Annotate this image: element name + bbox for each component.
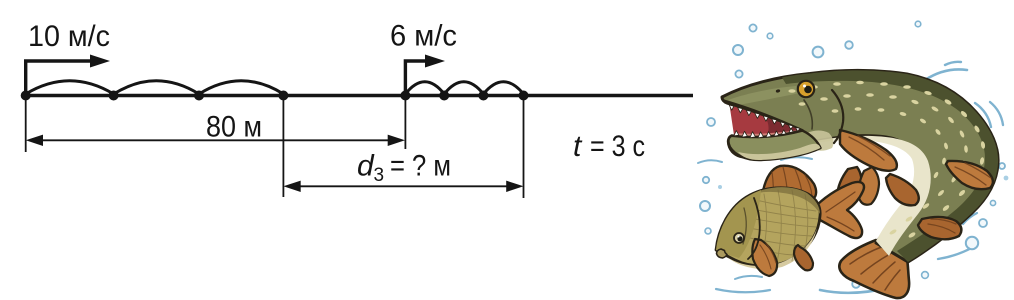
pike anal fin <box>918 217 961 239</box>
carp scale lines <box>749 190 818 262</box>
dimension line 80 m <box>26 135 405 146</box>
extension line left (x=25.7) <box>25 98 27 152</box>
bubble <box>813 47 824 58</box>
bubble <box>845 41 853 49</box>
pike pelvic fin right <box>886 174 919 205</box>
motion arc bottom center <box>820 287 892 293</box>
arc hop 3 (carp) <box>483 82 523 94</box>
ripple left of carp <box>698 160 722 163</box>
carp tail streaks <box>826 192 855 231</box>
bubble <box>966 237 978 249</box>
arc hop 3 (pike) <box>199 81 283 94</box>
ripple right of carp dorsal <box>781 157 812 160</box>
svg-text:t: t <box>573 130 583 163</box>
pike dorsal fin streaks <box>955 163 991 185</box>
motion arc top right 1 <box>925 69 967 80</box>
pike pelvic fin left2 <box>859 167 879 205</box>
motion arc top right 2 <box>945 62 961 65</box>
node dot 3 <box>194 91 204 101</box>
ripple below carp pectoral <box>735 276 762 279</box>
pike tongue <box>737 130 795 135</box>
bubble small dot <box>718 185 722 189</box>
arc hop 1 (pike) <box>26 81 114 94</box>
arc hop 1 (carp) <box>405 82 444 94</box>
motion arc bottom right <box>938 245 977 259</box>
wire main horizontal line <box>25 94 693 98</box>
pike mouth dark throat <box>765 118 800 134</box>
bubble <box>735 70 742 77</box>
carp dorsal streaks <box>772 167 812 199</box>
pike tail streaks <box>850 246 900 290</box>
bubble <box>990 200 995 205</box>
pike belly band <box>733 136 931 256</box>
pike dark back <box>782 70 998 262</box>
pike mouth interior <box>730 105 801 136</box>
bubble <box>707 118 715 126</box>
arc hop 2 (carp) <box>444 82 483 94</box>
node dot 4 <box>278 91 288 101</box>
node dot 1 <box>21 91 31 101</box>
svg-text:= ? м: = ? м <box>390 149 451 182</box>
dimension line d3 <box>283 181 523 192</box>
bubble small dot <box>1004 176 1009 181</box>
carp gill line <box>748 198 760 259</box>
carp belly light <box>727 228 817 269</box>
pike pectoral fin <box>840 130 897 171</box>
carp eye <box>734 233 744 243</box>
extension line x=283.4 below axis <box>282 98 284 197</box>
motion arc bottom left <box>716 289 770 292</box>
svg-text:80 м: 80 м <box>206 111 262 144</box>
pike lower jaw light <box>738 144 821 160</box>
pike nostril <box>775 89 780 93</box>
node dot 8 <box>519 91 529 101</box>
arc hop 2 (pike) <box>114 81 199 94</box>
pike teeth upper <box>729 105 800 132</box>
node dot 6 <box>439 91 449 101</box>
svg-text:= 3 с: = 3 с <box>590 130 645 163</box>
pike teeth lower <box>734 128 793 138</box>
bubble <box>915 21 921 27</box>
pike snout light <box>728 86 800 105</box>
carp head <box>716 190 761 258</box>
bubble <box>733 45 743 55</box>
svg-text:10 м/с: 10 м/с <box>28 20 110 53</box>
carp body <box>716 188 820 266</box>
carp mouth lips <box>717 249 728 258</box>
pike gill cover <box>832 90 843 143</box>
carp tail fin <box>812 182 864 238</box>
pike eye <box>798 81 814 97</box>
carp top dark <box>752 187 820 214</box>
pike cheek patch <box>806 131 833 151</box>
extension line x=523.5 below axis <box>523 98 525 198</box>
carp pectoral fin <box>752 239 777 276</box>
bubble <box>999 163 1005 169</box>
motion arc right <box>975 103 991 127</box>
bubble <box>767 33 773 39</box>
velocity arrow v1 (10 m/s) <box>26 55 110 96</box>
bubble <box>852 280 860 288</box>
svg-text:6 м/с: 6 м/с <box>390 20 457 53</box>
pike dorsal fin near tail <box>946 161 993 189</box>
carp anal fin <box>794 245 813 270</box>
pike pectoral fin streaks <box>849 136 890 160</box>
bubble <box>922 272 929 279</box>
bubble <box>749 24 756 31</box>
pike upper lip line <box>724 101 801 130</box>
bubble <box>703 177 709 183</box>
svg-text:d: d <box>357 149 375 182</box>
pike spots <box>788 81 985 239</box>
motion dash mid right <box>963 213 977 224</box>
bubble <box>700 201 710 211</box>
carp cheek line <box>743 208 746 244</box>
pike body <box>722 70 998 262</box>
carp pectoral streaks <box>760 243 776 269</box>
extension line x=405 below axis <box>404 98 406 149</box>
pike tail fin <box>839 240 909 298</box>
velocity arrow v2 (6 m/s) <box>405 55 445 96</box>
pike cheek line <box>804 100 812 129</box>
bubble <box>705 228 711 234</box>
node dot 2 <box>109 91 119 101</box>
carp dorsal fin <box>763 166 816 202</box>
svg-text:3: 3 <box>374 165 385 186</box>
pike lower jaw <box>728 131 820 160</box>
pike anal fin streaks <box>928 219 956 233</box>
node dot 7 <box>478 91 488 101</box>
pike pelvic fin left <box>837 167 862 206</box>
bubble <box>979 219 987 227</box>
node dot 5 <box>400 91 410 101</box>
